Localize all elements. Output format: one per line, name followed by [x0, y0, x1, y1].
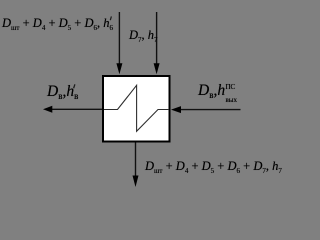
- arrowhead: drain cascade inlet: [116, 63, 122, 74]
- arrowhead: steam D7 inlet: [154, 63, 160, 74]
- prime tick of hv: [74, 84, 75, 88]
- label: drain outlet Dsht+D4+D5+D6+D7,h7: [145, 160, 282, 175]
- label: subscript vyh: [226, 97, 238, 104]
- label: superscript PS: [226, 84, 236, 91]
- wire: drain outlet (bottom vertical): [135, 143, 137, 177]
- wire: water inlet (right horizontal): [181, 109, 241, 111]
- wire: steam D7 inlet (top-right vertical): [156, 12, 158, 64]
- heat exchanger box: [103, 76, 170, 142]
- arrowhead: water inlet: [171, 106, 181, 113]
- wire: drain cascade inlet (top-left vertical): [118, 12, 120, 64]
- wire: water outlet (left horizontal): [52, 108, 103, 110]
- label: steam inlet D7,h7: [129, 29, 158, 44]
- coil zigzag symbol: [104, 85, 169, 131]
- arrowhead: water outlet: [43, 106, 52, 113]
- label: water inlet Dv,h: [198, 83, 225, 101]
- label: drain cascade inlet Dsht+D4+D5+D6,h6': [2, 17, 113, 32]
- arrowhead: drain outlet: [133, 176, 139, 188]
- label: water outlet Dv,hv': [47, 84, 78, 102]
- prime tick of h6: [110, 16, 111, 20]
